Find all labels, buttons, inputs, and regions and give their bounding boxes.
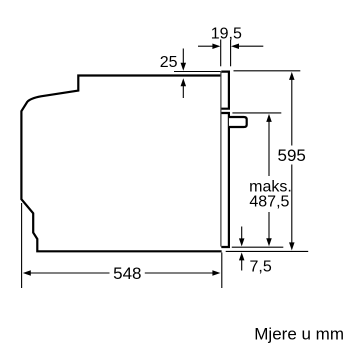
dim maks 487,5 line — [268, 122, 270, 177]
oven door — [221, 113, 229, 247]
dim 548 line right — [145, 272, 213, 274]
dim 595 bottom extension line — [226, 250, 309, 252]
dim 595 line — [291, 80, 293, 146]
dim 19,5 extension line right — [230, 40, 232, 67]
dim 548 extension line right — [221, 253, 223, 289]
svg-text:548: 548 — [113, 264, 141, 283]
control panel — [221, 72, 229, 109]
dim 19,5 extension line left — [220, 40, 222, 67]
svg-text:595: 595 — [278, 146, 306, 165]
svg-text:25: 25 — [160, 54, 178, 71]
dim 7,5 bottom arrow — [239, 252, 245, 260]
dim maks 487,5 extension line top — [232, 112, 281, 114]
front frame line — [220, 72, 222, 247]
dim 25 reference line — [174, 71, 221, 73]
dim 25 top arrow — [182, 49, 184, 64]
dim 548 extension line left — [21, 203, 23, 288]
door handle — [229, 117, 247, 127]
svg-text:7,5: 7,5 — [250, 259, 272, 276]
svg-text:487,5: 487,5 — [249, 194, 289, 211]
dim 19,5 left arrow — [198, 45, 213, 47]
dim 7,5 top arrow — [241, 227, 243, 239]
svg-text:19,5: 19,5 — [211, 25, 242, 42]
dim 25 bottom arrow — [181, 78, 187, 86]
dim 19,5 right arrow — [239, 45, 264, 47]
svg-text:Mjere u mm: Mjere u mm — [254, 325, 344, 344]
dim maks 487,5 extension line bottom — [232, 246, 283, 248]
dim 548 line left — [31, 272, 110, 274]
dim 595 top extension line — [234, 70, 301, 72]
oven body outline — [21, 76, 221, 252]
